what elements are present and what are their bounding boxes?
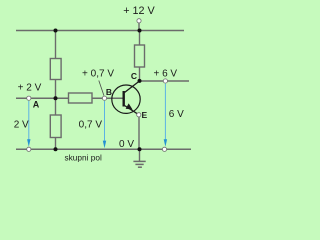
transistor Q1 emitter lead	[125, 106, 139, 115]
junction dot bottom-left	[54, 147, 58, 151]
wire top rail (+12V rail)	[16, 30, 184, 32]
svg-text:+ 2 V: + 2 V	[18, 83, 42, 94]
transistor Q1 emitter arrow	[126, 103, 133, 109]
wire R2 to bottom rail	[55, 138, 57, 150]
wire top rail to R3	[139, 31, 141, 46]
wire left branch R1 to A	[55, 80, 57, 98]
svg-text:0 V: 0 V	[119, 139, 134, 150]
transistor Q1 circle	[112, 85, 140, 113]
wire A to R2	[55, 98, 57, 115]
svg-text:+ 12 V: + 12 V	[123, 5, 155, 17]
terminal bottom-left	[27, 147, 31, 151]
resistor R3 (collector, vertical)	[135, 45, 145, 67]
terminal +12V	[137, 19, 141, 23]
svg-text:6 V: 6 V	[169, 109, 184, 120]
junction node C	[138, 79, 142, 83]
resistor R1 (upper left, vertical)	[50, 59, 61, 80]
wire bottom rail (0V rail)	[16, 148, 191, 150]
resistor R4 (base, horizontal)	[69, 93, 93, 103]
junction node A	[54, 96, 58, 100]
terminal +6V	[163, 79, 167, 83]
svg-text:E: E	[142, 110, 148, 120]
transistor Q1 collector lead	[125, 81, 140, 93]
terminal emitter E	[137, 113, 141, 117]
svg-text:skupni pol: skupni pol	[65, 152, 103, 162]
junction dot top-left	[54, 29, 58, 33]
wire left branch upper	[55, 31, 57, 60]
voltage arrow 6V (+6V to bottom)	[164, 84, 167, 147]
resistor R2 (lower left, vertical)	[50, 115, 61, 138]
svg-text:B: B	[106, 87, 112, 97]
junction dot top-right	[138, 29, 142, 33]
terminal bottom-right	[162, 147, 166, 151]
terminal node B	[102, 96, 106, 100]
wire R3 to node C	[139, 67, 141, 81]
transistor Q1 base bar	[122, 91, 124, 107]
svg-text:+ 0,7 V: + 0,7 V	[82, 68, 114, 79]
svg-text:0,7 V: 0,7 V	[79, 120, 103, 131]
wire +12V terminal stub	[138, 23, 140, 31]
wire collector rail +6V	[140, 80, 190, 82]
svg-text:+ 6 V: + 6 V	[153, 69, 177, 80]
ground bar 1	[133, 160, 145, 162]
voltage arrow 2V (node A to bottom)	[27, 101, 30, 147]
wire base rail A-B	[16, 97, 123, 99]
junction dot bottom-right (ground)	[138, 147, 142, 151]
ground bar 3	[138, 166, 142, 168]
terminal node A	[27, 96, 31, 100]
svg-text:C: C	[131, 71, 137, 81]
ground stub	[139, 149, 141, 161]
ground bar 2	[135, 163, 143, 165]
svg-text:A: A	[33, 100, 40, 110]
voltage arrow 0,7V (node B to bottom)	[103, 101, 106, 148]
wire emitter to bottom rail	[138, 117, 140, 150]
leader line from +0,7V label to node B	[99, 81, 104, 96]
svg-text:2 V: 2 V	[14, 120, 29, 131]
